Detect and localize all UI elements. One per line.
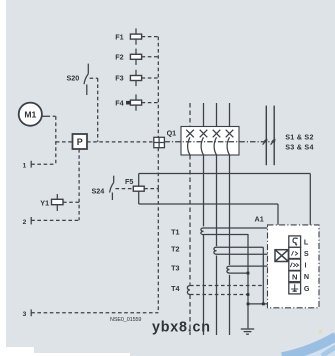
svg-text:F5: F5: [125, 177, 133, 186]
svg-text:Q1: Q1: [167, 129, 177, 138]
svg-text:I: I: [305, 261, 307, 270]
svg-text:T4: T4: [171, 284, 179, 293]
svg-text:3: 3: [23, 311, 27, 318]
svg-text:L: L: [304, 238, 309, 247]
svg-text:S24: S24: [92, 186, 105, 195]
svg-text:1: 1: [23, 162, 27, 169]
svg-text:Y1: Y1: [40, 198, 49, 207]
svg-text:S1 & S2: S1 & S2: [285, 132, 314, 141]
svg-text:T3: T3: [171, 264, 179, 273]
svg-text:S3 & S4: S3 & S4: [285, 143, 314, 152]
svg-text:F1: F1: [115, 32, 123, 41]
svg-text:T1: T1: [171, 227, 179, 236]
svg-text:A1: A1: [255, 214, 264, 223]
svg-text:P: P: [77, 137, 83, 147]
svg-text:M1: M1: [24, 109, 36, 119]
svg-text:F3: F3: [115, 74, 123, 83]
svg-text:S: S: [304, 249, 309, 258]
svg-text:NSE0_01559: NSE0_01559: [110, 317, 141, 323]
svg-text:ybx8.cn: ybx8.cn: [152, 319, 211, 335]
svg-text:T2: T2: [171, 245, 179, 254]
svg-text:N: N: [304, 272, 309, 281]
svg-text:S20: S20: [67, 73, 80, 82]
svg-text:G: G: [304, 284, 310, 293]
svg-text:F2: F2: [115, 53, 123, 62]
svg-text:N: N: [292, 273, 297, 282]
svg-text:2: 2: [23, 219, 27, 226]
svg-text:F4: F4: [115, 98, 123, 107]
